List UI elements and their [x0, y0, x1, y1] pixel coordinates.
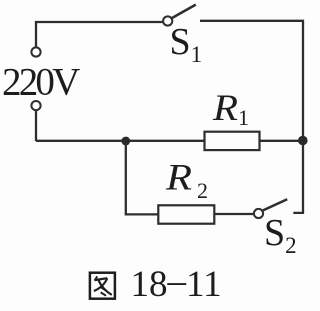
- node junction left: [121, 137, 130, 146]
- wire top-right from S1 to right rail down to S2 stub: [200, 21, 303, 213]
- switch S2 blade: [263, 199, 287, 210]
- wire from source bottom terminal down to middle branch: [35, 110, 37, 141]
- wire from left junction down and to resistor R2: [126, 141, 159, 214]
- svg-text:R: R: [212, 88, 238, 129]
- node junction right: [298, 136, 308, 146]
- svg-text:220V: 220V: [2, 61, 80, 104]
- switch S1 blade: [172, 5, 196, 18]
- terminal circle top of 220V source: [31, 47, 40, 56]
- wire middle branch right segment: [260, 140, 304, 142]
- switch S2 pivot circle: [254, 209, 263, 218]
- wire from R2 to switch S2: [214, 213, 254, 215]
- resistor R1: [205, 132, 260, 150]
- svg-text:R: R: [165, 157, 192, 198]
- resistor R2: [158, 205, 214, 223]
- svg-text:1: 1: [238, 105, 249, 130]
- wire middle branch left segment: [36, 140, 205, 142]
- svg-text:2: 2: [197, 178, 208, 203]
- svg-text:18–11: 18–11: [131, 261, 222, 306]
- wire top-left from source top terminal to switch S1: [36, 22, 163, 47]
- switch S1 pivot circle: [163, 16, 172, 25]
- caption figure character (tu) drawn as strokes: [90, 273, 115, 299]
- terminal circle bottom of 220V source: [31, 101, 40, 110]
